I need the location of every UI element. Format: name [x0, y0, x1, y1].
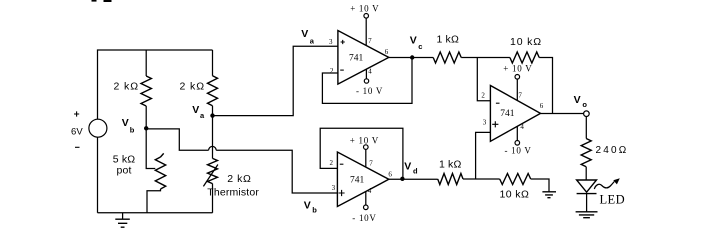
node Vc [410, 35, 423, 60]
svg-text:- 10 V: - 10 V [505, 146, 532, 156]
node Va [192, 104, 215, 120]
ground middle [542, 192, 556, 198]
resistor R5 1 kOhm (bottom) [438, 159, 500, 185]
resistor R3 1 kOhm (top) [415, 33, 510, 63]
LED D1 [577, 178, 625, 212]
svg-text:6: 6 [388, 170, 392, 178]
wire U2 output [389, 178, 438, 180]
svg-text:LED: LED [600, 192, 626, 206]
svg-text:o: o [582, 100, 587, 109]
svg-text:2 kΩ: 2 kΩ [180, 80, 205, 92]
svg-text:741: 741 [500, 109, 515, 119]
op-amp U2 741 (lower) [330, 152, 393, 207]
svg-text:b: b [130, 126, 135, 135]
svg-text:7: 7 [518, 92, 522, 100]
node Vd [400, 161, 418, 181]
resistor R6 10 kOhm (bottom) [500, 174, 550, 201]
wire U1 output [389, 57, 415, 59]
svg-text:6: 6 [385, 48, 389, 56]
svg-text:2 kΩ: 2 kΩ [114, 80, 139, 92]
svg-text:5 kΩ: 5 kΩ [113, 153, 135, 165]
svg-text:V: V [301, 28, 308, 40]
svg-text:741: 741 [349, 53, 364, 63]
wire top rail [98, 50, 213, 119]
power +10V U3 pin7 [503, 64, 532, 101]
svg-text:Thermistor: Thermistor [207, 186, 259, 198]
svg-text:V: V [304, 200, 311, 212]
wire junction to U3 pin2 [477, 58, 490, 101]
resistor R7 240 Ohm [581, 117, 628, 180]
wire U1 feedback pin2 to output [322, 58, 412, 104]
svg-text:4: 4 [368, 187, 372, 195]
svg-text:2: 2 [330, 159, 334, 167]
svg-text:2: 2 [481, 92, 485, 100]
ground left [115, 213, 130, 227]
resistor R4 10 kOhm (top feedback) [510, 36, 553, 114]
power +10V U2 pin7 [350, 135, 379, 167]
svg-text:240Ω: 240Ω [596, 145, 629, 156]
op-amp U3 741 (right) [481, 86, 543, 142]
svg-text:4: 4 [368, 67, 372, 75]
svg-text:V: V [192, 104, 199, 116]
wire Vb to op-amp U2 pin3 (hop over thermistor branch) [146, 129, 337, 215]
svg-text:6: 6 [540, 102, 544, 110]
resistor R1 2 kOhm left [114, 50, 152, 127]
svg-text:c: c [418, 42, 422, 51]
potentiometer 5 kOhm pot [113, 128, 166, 213]
wire Va to op-amp U1 pin3 [213, 28, 338, 116]
wire U2 feedback pin2 to output [320, 128, 403, 179]
svg-text:b: b [312, 206, 317, 215]
power -10V U2 pin4 [352, 191, 376, 223]
svg-text:1 kΩ: 1 kΩ [437, 33, 459, 45]
wire bottom rail [98, 212, 213, 214]
power +10V U1 pin7 [350, 4, 379, 46]
svg-text:+ 10 V: + 10 V [350, 135, 379, 145]
terminal Vo [574, 94, 590, 117]
svg-text:V: V [404, 161, 411, 173]
wire U3 pin3 to bottom rail junction [476, 132, 491, 179]
svg-text:7: 7 [368, 37, 372, 45]
svg-text:+ 10 V: + 10 V [503, 64, 532, 74]
voltage source 6V [71, 111, 107, 212]
svg-text:6V: 6V [71, 126, 83, 137]
svg-text:741: 741 [350, 175, 365, 185]
svg-text:2 kΩ: 2 kΩ [227, 173, 251, 185]
svg-text:3: 3 [483, 119, 487, 127]
thermistor 2 kOhm [203, 116, 259, 213]
svg-text:V: V [410, 35, 417, 47]
svg-text:7: 7 [369, 160, 373, 168]
svg-text:- 10 V: - 10 V [356, 86, 383, 96]
power -10V U3 pin4 [505, 126, 532, 156]
svg-text:+ 10 V: + 10 V [350, 4, 379, 14]
svg-text:3: 3 [329, 38, 333, 46]
op-amp U1 741 (upper) [329, 31, 389, 85]
svg-text:pot: pot [117, 165, 132, 177]
svg-text:10 kΩ: 10 kΩ [500, 188, 530, 200]
node Vb [122, 117, 149, 135]
svg-text:d: d [413, 167, 418, 176]
svg-text:V: V [122, 117, 129, 129]
svg-text:4: 4 [520, 123, 524, 131]
svg-text:- 10V: - 10V [352, 213, 376, 223]
svg-text:10 kΩ: 10 kΩ [510, 36, 542, 48]
svg-text:V: V [574, 94, 581, 106]
resistor R2 2 kOhm right [180, 50, 218, 114]
wire U3 output to Vo [541, 113, 584, 115]
power -10V U1 pin4 [356, 69, 383, 96]
svg-text:1 kΩ: 1 kΩ [439, 159, 461, 171]
ground LED [576, 212, 598, 218]
svg-text:3: 3 [332, 184, 336, 192]
